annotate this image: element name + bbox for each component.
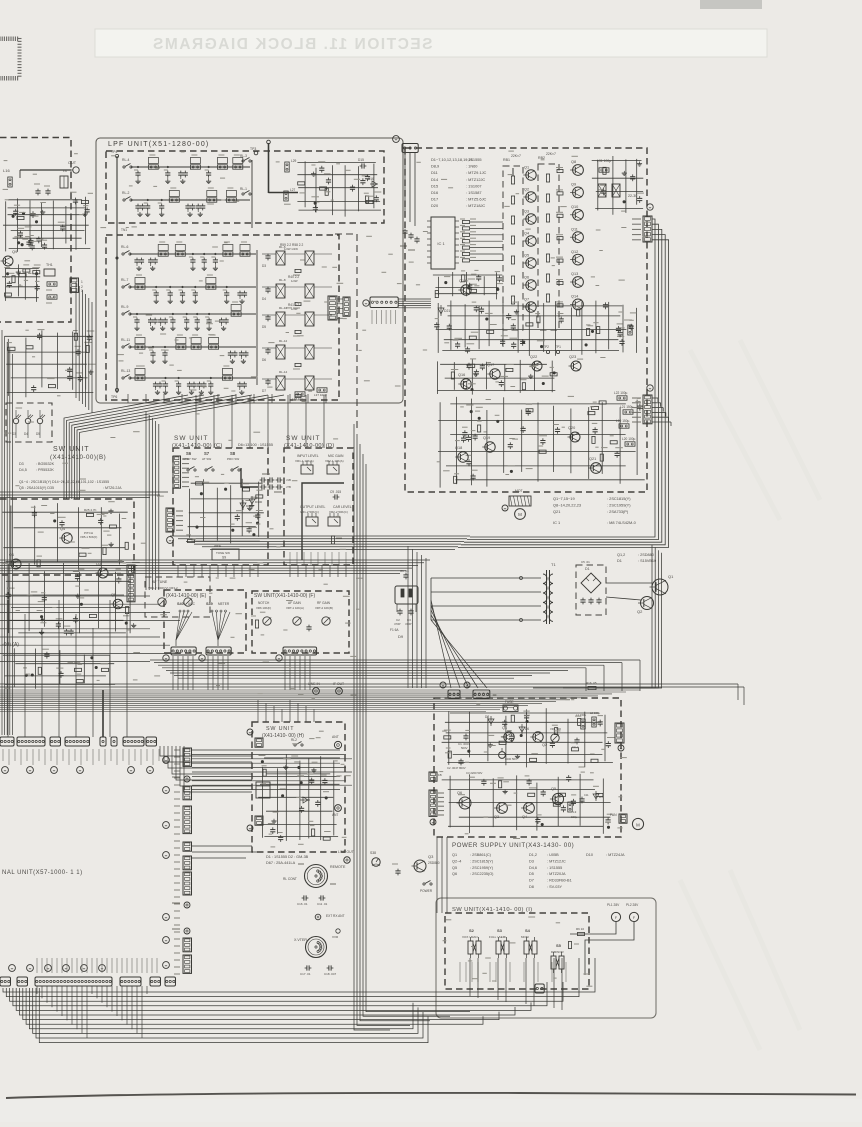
8-pin connector strip (signal unit right edge) (127, 565, 135, 602)
5-pin connector strip (MY2,G,XWN...) left edge (166, 508, 174, 532)
svg-text:Q5: Q5 (111, 593, 116, 597)
svg-text:RF GAIN: RF GAIN (317, 601, 331, 605)
svg-text:Q18: Q18 (455, 446, 462, 450)
PSU transistor Q2 (533, 732, 543, 742)
svg-text:TP3: TP3 (250, 147, 256, 151)
SW unit (B) dashed enclosure (0, 499, 134, 575)
svg-text:RL-7: RL-7 (121, 278, 128, 282)
coil L1 150u (581, 719, 585, 729)
6-pin connector on PSU left edge (429, 790, 437, 816)
wires from PSU area up right side (533, 545, 662, 688)
svg-text:Q2: Q2 (542, 743, 547, 747)
svg-text:C11: C11 (584, 793, 589, 797)
fuse F1 (503, 705, 518, 712)
svg-text:VR5-1 50K(F): VR5-1 50K(F) (80, 535, 97, 539)
svg-text:Q21: Q21 (553, 509, 560, 514)
connector out of (H) (255, 816, 263, 825)
svg-text:D3: D3 (19, 462, 24, 466)
connector strip (F) (283, 647, 317, 655)
AGC amplifier stage (Q15, R30-R35, C69-C72) (433, 270, 503, 299)
svg-text:D1: D1 (585, 567, 590, 571)
svg-text:Q8: Q8 (571, 160, 576, 164)
svg-text:Q2: Q2 (637, 609, 643, 614)
svg-text:D1,2: D1,2 (529, 853, 537, 857)
svg-text:C7 .1: C7 .1 (572, 745, 579, 749)
svg-text:Q13: Q13 (571, 272, 578, 276)
svg-text:ANT: ANT (332, 813, 338, 817)
OUT jack (73, 167, 79, 173)
transformer T4 (60, 176, 68, 188)
PSU transistor Q3 (497, 803, 508, 814)
IF OUT jack (336, 688, 343, 695)
horizontal wire bus above main connector row (0, 690, 640, 712)
svg-text:INPUT LEVEL: INPUT LEVEL (297, 454, 319, 458)
PSU transistor Q4 (524, 803, 535, 814)
svg-text:Q6: Q6 (524, 276, 529, 280)
svg-text:Q17: Q17 (487, 363, 494, 367)
svg-text:Q5: Q5 (524, 254, 529, 258)
svg-text:D7: D7 (262, 389, 266, 393)
LPF stage row 2 (RL-2, L3 L4 C9-C16) (122, 188, 250, 217)
bias resistors R41-R47 470 between Q columns (556, 168, 563, 308)
capacitor C7 .1 (576, 738, 578, 740)
vertical wire labels below switches (460, 962, 566, 982)
FAN connector (619, 814, 627, 823)
switch tree S40 (176, 610, 192, 646)
svg-text:AT SW: AT SW (202, 457, 211, 461)
svg-text:(X41-1410-00) (E): (X41-1410-00) (E) (166, 593, 207, 599)
svg-text:S5: S5 (556, 943, 562, 948)
connector strip (E) left (171, 647, 196, 655)
svg-text:PL1 28V: PL1 28V (607, 903, 620, 907)
svg-text:TP4: TP4 (111, 150, 117, 154)
svg-text:S40: S40 (177, 602, 184, 606)
pin HET (184, 902, 190, 908)
svg-text:RL-2: RL-2 (122, 191, 129, 195)
pin RIF (184, 776, 190, 782)
svg-text:L19 150µ: L19 150µ (616, 419, 630, 423)
svg-text:: S15VB10: : S15VB10 (638, 559, 656, 563)
svg-text:Q1,2: Q1,2 (617, 553, 625, 557)
svg-text:: MTZ9.1JC: : MTZ9.1JC (466, 170, 487, 175)
LED indicator sub-box (D3,D4,D5) (6, 403, 52, 442)
X.VTER DIN socket (294, 929, 340, 958)
thick feed wire to connector row (102, 690, 104, 737)
svg-text:OUT: OUT (68, 161, 77, 165)
PSU regulator circuitry (D7,D8,C1,C6,VR1,C8) (442, 708, 615, 767)
svg-text:Q10: Q10 (571, 205, 578, 209)
transistor Q21 (591, 463, 602, 474)
power transformer T1 (543, 562, 556, 624)
svg-text:AGC: AGC (188, 602, 196, 606)
left edge vertical wire bundle (2, 330, 12, 735)
svg-text:Q16: Q16 (458, 373, 465, 377)
svg-text:Q20: Q20 (568, 426, 575, 430)
svg-text:F1 6A: F1 6A (390, 628, 399, 632)
wires from E/F connector strips down to bus (173, 656, 310, 690)
pass transistor Q2 (power) (641, 597, 654, 610)
svg-text:1/2W: 1/2W (291, 279, 298, 283)
svg-text:T1: T1 (551, 562, 556, 567)
antenna feed line (thick) (268, 143, 270, 193)
diode D15 (360, 165, 362, 167)
film sprocket frame mark, top-left page corner (0, 37, 22, 81)
svg-text:D15: D15 (358, 158, 364, 162)
svg-text:: MTZ20JA: : MTZ20JA (547, 872, 566, 876)
svg-text:XVR: XVR (332, 935, 339, 939)
vertical labels under output connector (372, 310, 396, 324)
band relay decoder parts (L13, C28, R45) (5, 330, 96, 398)
coil L27 (284, 191, 288, 201)
svg-text:: 2SD880: : 2SD880 (638, 553, 654, 557)
svg-text:SW UNIT: SW UNIT (174, 435, 208, 442)
potentiometer VRT-2 (322, 617, 330, 625)
coil L31 100u (599, 168, 609, 172)
svg-text:Q5 : 2SA1015(Y) D35: Q5 : 2SA1015(Y) D35 (19, 486, 54, 490)
svg-text:D17: D17 (431, 197, 438, 202)
SW unit (E) dashed enclosure (164, 590, 246, 653)
5-pin connector RL5-RL9 on right edge (643, 216, 652, 242)
dashed partition above SW unit (C) (335, 234, 357, 430)
grey register tab top-right (700, 0, 762, 9)
resistor R24 4.7K (255, 620, 258, 628)
svg-text:150µ: 150µ (571, 815, 578, 819)
single pin connectors DRV / XVT (100, 737, 106, 746)
svg-text:MOT: MOT (515, 489, 523, 493)
svg-text:C2 .0047 800V: C2 .0047 800V (447, 766, 466, 770)
resistor R4 180K vertical (331, 536, 334, 544)
svg-text:2SD880: 2SD880 (428, 861, 440, 865)
RL coil connector (RL5-RL9) inside LPF (328, 296, 337, 320)
transistor Q3 (signal unit) (98, 568, 108, 578)
resistor R25 4.7K (87, 513, 94, 516)
svg-text:C3 2200 50V: C3 2200 50V (466, 771, 482, 775)
index circle under (F) (276, 655, 282, 661)
svg-text:L16: L16 (3, 168, 10, 173)
AC power plug D9 with line filter (390, 569, 418, 639)
capacitor C13 .01 (397, 869, 399, 871)
potentiometer VRT-1 (293, 617, 301, 625)
svg-text:D4: D4 (24, 432, 28, 436)
svg-text:L22 100µ: L22 100µ (614, 391, 628, 395)
horizontal wire bus (second group) (150, 660, 640, 691)
svg-text:J7B: J7B (286, 485, 291, 489)
svg-text:L38 100µ: L38 100µ (292, 397, 305, 401)
svg-text:RL-3: RL-3 (240, 154, 247, 158)
svg-text:: 1S1555: : 1S1555 (466, 157, 482, 162)
svg-text:WIDE: WIDE (214, 544, 221, 548)
6-pin connector (2B,BST,SWB,AVR,TN) on right edge (643, 395, 652, 424)
main connector row strips on signal unit (0, 737, 157, 746)
svg-text:RL CONT: RL CONT (283, 877, 297, 881)
svg-text:POWER SUPPLY UNIT(X43-1430- 00: POWER SUPPLY UNIT(X43-1430- 00) (452, 842, 574, 849)
capacitors C16 .01 / C11 .01 under REMOTE (302, 897, 304, 899)
SW unit (C) diode logic (D6-D13, R100, S9) (186, 477, 263, 544)
svg-text:D16: D16 (368, 177, 374, 181)
coil L3 150u (568, 802, 572, 812)
slide potentiometer VR2-2 (328, 517, 340, 526)
svg-text:D10: D10 (586, 853, 593, 857)
svg-text:: MTZ18JC: : MTZ18JC (466, 203, 485, 208)
POWER SUPPLY UNIT dashed enclosure (434, 698, 621, 837)
voltage selector / rectifier D1 dashed box (576, 565, 606, 615)
signal unit internal wiring rows (left block) (0, 596, 180, 737)
thermistor TH1 (44, 269, 55, 276)
svg-text:J1B: J1B (286, 478, 291, 482)
resistor network RB2 22Kx7 dashed box (538, 164, 559, 330)
svg-text:Q3: Q3 (428, 854, 434, 859)
svg-text:RB1: RB1 (503, 158, 510, 162)
svg-text:C5 .01: C5 .01 (581, 560, 590, 564)
transistor Q15 (461, 285, 471, 295)
svg-text:SECTION 11. BLOCK DIAGRAMS: SECTION 11. BLOCK DIAGRAMS (152, 36, 433, 53)
transistor Q18 (458, 452, 468, 462)
svg-text:D8: D8 (529, 885, 534, 889)
svg-text:FAN: FAN (610, 813, 617, 817)
svg-text:1B: 1B (438, 773, 442, 777)
potentiometer VR1 500 (551, 734, 559, 742)
diode D16 (370, 183, 378, 185)
T1 primary lead wires (431, 577, 541, 622)
mid-page vertical wire bundle (354, 424, 470, 1030)
svg-text:LPF UNIT(X51-1280-00): LPF UNIT(X51-1280-00) (108, 141, 209, 148)
driver bias network (R51,C37,C27,R52) (2, 264, 41, 302)
potentiometer VR6 (263, 617, 271, 625)
svg-text:L1 150µ: L1 150µ (576, 713, 587, 717)
index circle (430, 819, 436, 825)
svg-text:S38: S38 (370, 851, 376, 855)
svg-text:1/2W: 1/2W (291, 307, 298, 311)
relay RL2 contact (294, 744, 296, 746)
svg-text:Q8~14,20,22,23: Q8~14,20,22,23 (553, 503, 581, 508)
capacitor C2 .0047 800V (460, 759, 462, 761)
svg-text:TP2: TP2 (543, 345, 549, 349)
antenna coupler network (R30,R50,R68,C91,D15,D16,L30,L24,C77,C78) (297, 161, 381, 216)
svg-text:Q1~7,15~19: Q1~7,15~19 (553, 496, 575, 501)
transistor table text (IF unit) (553, 496, 637, 525)
svg-text:C17 .01: C17 .01 (300, 972, 311, 976)
svg-text:Q9: Q9 (12, 249, 18, 254)
SW unit (I) dashed enclosure (445, 913, 589, 989)
svg-text:VRT-1 10K(A): VRT-1 10K(A) (286, 606, 304, 610)
diode D100 (251, 496, 253, 506)
pin RAT (184, 928, 190, 934)
vertical wire bundle from driver unit down left side (76, 282, 92, 413)
svg-text:AF GAIN: AF GAIN (288, 601, 301, 605)
svg-text:Q12: Q12 (571, 250, 578, 254)
svg-text:EXT RX ANT: EXT RX ANT (326, 914, 345, 918)
svg-text:SW UNIT(X41-1410- 00) (I): SW UNIT(X41-1410- 00) (I) (452, 907, 533, 913)
LINE IN jack (313, 688, 320, 695)
transistor Q9 (3, 256, 13, 266)
bus drop wires into SW unit (C)(D) tops (196, 395, 324, 448)
capacitor C9 .015 (333, 496, 335, 498)
test point TP6 (115, 388, 118, 391)
svg-text:TN1: TN1 (121, 228, 127, 232)
svg-text:TONE SW: TONE SW (216, 551, 230, 555)
svg-text:ANT: ANT (332, 735, 339, 739)
capacitors C17 C18 under X.VTER (305, 967, 307, 969)
wires from edge connector column to the right (192, 750, 352, 790)
svg-text:: 1S1555: : 1S1555 (547, 866, 562, 870)
svg-text:AF TUNE: AF TUNE (152, 580, 168, 584)
svg-text:FULL / SEMI: FULL / SEMI (489, 935, 506, 939)
LPF upper filter bank dashed box (106, 151, 384, 223)
transistor Q4 (B unit) (62, 533, 72, 543)
svg-text:D7: D7 (485, 715, 489, 719)
connector strip on PSU top edge (right) (473, 690, 490, 699)
svg-text:D3: D3 (262, 264, 266, 268)
AF TUNE dashed box (VR3-2, VR4-2) (145, 577, 210, 617)
LPF output connector (6-pin) with index circle (370, 297, 398, 308)
svg-text:Q2~4: Q2~4 (452, 859, 461, 863)
svg-text:: 2SA733(P): : 2SA733(P) (607, 509, 629, 514)
svg-text:D11: D11 (431, 170, 438, 175)
signal path thick wire through (D) (302, 483, 344, 497)
vertical pin labels above bottom strips (37, 958, 157, 973)
test point TP3 (254, 151, 258, 155)
svg-text:IC 1: IC 1 (437, 241, 445, 246)
transistor column Q1-Q7 (523, 166, 536, 313)
wires above SW unit (B) (0, 492, 168, 498)
tiny pin labels beside connector column (174, 750, 180, 974)
svg-text:RL-12: RL-12 (279, 339, 288, 343)
LPF stage row 5 (RL-9, L10 L11 C37-C45) (121, 302, 256, 331)
zener D21 (440, 305, 442, 316)
svg-text:S4: S4 (525, 928, 531, 933)
svg-text:: 2SB861(C): : 2SB861(C) (470, 853, 492, 857)
bus from IF unit down to E/F and H units (0, 536, 470, 574)
svg-text:RL-11: RL-11 (121, 338, 130, 342)
driver unit RC network (C28,C30,R50,L15) (3, 197, 90, 252)
svg-text:22K×7: 22K×7 (511, 154, 521, 158)
svg-text:S3: S3 (497, 928, 503, 933)
svg-text:S9: S9 (222, 556, 226, 560)
connector into (H) (255, 738, 263, 747)
svg-text:22-30: 22-30 (628, 194, 637, 198)
coil L22 100u (617, 396, 627, 400)
potentiometer VR4-2 (158, 598, 166, 606)
svg-text:VR6 10K(F): VR6 10K(F) (256, 606, 271, 610)
svg-text:TP1: TP1 (555, 345, 561, 349)
svg-text:D16: D16 (431, 190, 438, 195)
svg-text:: MTZ12JC: : MTZ12JC (466, 177, 485, 182)
LPF mid rail (row outputs) (251, 160, 253, 228)
svg-text:Q4: Q4 (524, 232, 529, 236)
svg-text:1/2W 1/2W: 1/2W 1/2W (284, 247, 298, 251)
svg-text:: RD33FB0-B1: : RD33FB0-B1 (547, 879, 572, 883)
wire from T4 to OUT jack (20, 169, 71, 171)
relay coil K1 (256, 782, 270, 798)
3-pin connector (ANT feed) with index circle (402, 144, 418, 153)
PSU semiconductor table text (452, 853, 625, 889)
coupling capacitor bank between (C) and (D) (260, 474, 291, 492)
coil L16 (8, 177, 12, 187)
wires relay bank to connectors (337, 299, 343, 318)
svg-text:D6: D6 (262, 358, 266, 362)
svg-text:D1: D1 (617, 559, 622, 563)
svg-text:Q5: Q5 (551, 787, 556, 791)
index circles under connector row (2, 767, 9, 774)
svg-text:TH1: TH1 (46, 263, 53, 267)
scattered tiny component label marks (texture) (2, 151, 649, 986)
svg-text:L21 150µ: L21 150µ (620, 405, 634, 409)
svg-text:: 2SC1959(Y): : 2SC1959(Y) (607, 503, 631, 508)
svg-text:R16 .05: R16 .05 (586, 681, 597, 685)
resistor R16 .05 (588, 686, 596, 689)
transistor column Q8-Q14 (570, 160, 583, 310)
svg-text:: 1N60: : 1N60 (466, 164, 478, 169)
antenna tuner motor assembly MOT (509, 496, 531, 506)
svg-text:2200 50V: 2200 50V (505, 757, 517, 761)
pin labels at (D) bottom edge (290, 552, 346, 565)
svg-text:D3: D3 (529, 859, 534, 863)
driver unit dashed enclosure (cut off at left edge) (0, 138, 71, 323)
LPF relay bank (RL-6..RL-14 selection relays) (262, 245, 332, 400)
svg-text:Q11: Q11 (571, 227, 578, 231)
legend text for SW unit (B) (19, 462, 122, 490)
relay RL-3 mid row (242, 160, 244, 162)
svg-text:D9: D9 (398, 634, 404, 639)
coil L25 150u right side (628, 325, 632, 335)
coil L19 150u (619, 424, 629, 428)
svg-text:Q3: Q3 (494, 815, 499, 819)
wires from LPF output connector to IF unit (398, 299, 431, 308)
REMOTE DIN socket (283, 864, 346, 888)
index circles above bottom strips (9, 965, 16, 972)
meter/lamp outer frame (bottom right) (436, 898, 656, 1018)
index circles under (E) (163, 655, 169, 661)
L38 100u choke (295, 392, 305, 396)
svg-text:L37 100µ: L37 100µ (314, 393, 327, 397)
transistor Q20 (570, 432, 580, 442)
svg-text:D4: D4 (262, 297, 266, 301)
svg-text:Q15: Q15 (459, 279, 466, 283)
PSU transistor Q5 (552, 793, 563, 804)
svg-text:VR2-2 50K(C): VR2-2 50K(C) (329, 510, 348, 514)
coil L10 150u (47, 295, 57, 299)
SW unit (F) dashed enclosure (252, 591, 349, 653)
wires from ANT connector down (404, 153, 406, 218)
switch tree S39 (211, 610, 230, 646)
svg-text:RL-9: RL-9 (121, 305, 128, 309)
pass transistor Q1 (power) (652, 579, 668, 595)
svg-text:PRO SW: PRO SW (227, 457, 239, 461)
svg-text:RL-13: RL-13 (121, 369, 130, 373)
svg-text:C16 .01: C16 .01 (297, 902, 308, 906)
svg-text:SW UNIT: SW UNIT (53, 446, 90, 453)
wires from edge connector to REMOTE socket (192, 846, 258, 858)
junction index circle (647, 204, 653, 210)
wires from bottom strips down to loop bus (37, 986, 147, 1038)
svg-text:S6: S6 (186, 451, 192, 456)
diode D7 (490, 716, 492, 726)
svg-text:OUTPUT LEVEL: OUTPUT LEVEL (300, 505, 325, 509)
svg-text:Q1: Q1 (668, 574, 674, 579)
svg-text:: M8 74LS42M-0: : M8 74LS42M-0 (607, 520, 637, 525)
faint show-through diagonal watermark (right side) (680, 340, 820, 1050)
transistor Q3 (AF output, near power switch) (414, 860, 426, 872)
svg-text:VRT-2 10K(B): VRT-2 10K(B) (315, 606, 333, 610)
PSU low-voltage rail parts (R15-R21, C10-C14) (442, 774, 613, 834)
signal unit AF parts (Q5 bias, HI/LO slope tune) (3, 648, 115, 688)
svg-text:MIC GAIN: MIC GAIN (328, 454, 344, 458)
wires from (C)(D) bottoms down to bus (178, 565, 346, 577)
connector strip (E) right (206, 647, 231, 655)
capacitors C74 C75 C76 at ANT feed (404, 229, 406, 231)
svg-text:L20 100µ: L20 100µ (622, 437, 636, 441)
long horizontal bus to right edge (0, 683, 738, 685)
